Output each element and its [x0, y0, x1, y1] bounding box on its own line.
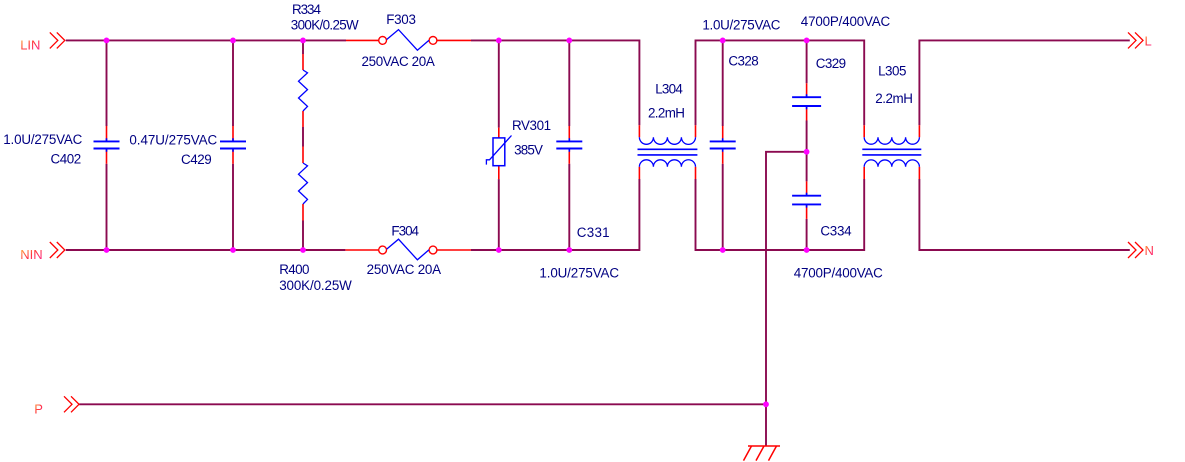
pin C429 leads	[232, 126, 234, 164]
wire top rail between fuse and L304	[471, 40, 639, 125]
pin C402 leads	[106, 126, 108, 164]
node P rail earth junction	[763, 401, 769, 407]
svg-text:L: L	[1145, 34, 1152, 49]
svg-text:1.0U/275VAC: 1.0U/275VAC	[539, 266, 619, 281]
node RV301 top	[496, 38, 502, 44]
pin L305 leads	[864, 125, 919, 179]
svg-text:N: N	[1145, 243, 1154, 258]
port L	[1128, 32, 1152, 48]
svg-text:L304: L304	[655, 82, 683, 97]
node C429 bottom	[230, 247, 236, 253]
svg-text:1.0U/275VAC: 1.0U/275VAC	[702, 18, 780, 33]
capacitor C402	[3, 132, 119, 167]
wire C429 branch	[232, 40, 234, 250]
node RV301 bottom	[496, 247, 502, 253]
svg-text:C329: C329	[816, 56, 846, 71]
wire RV301 branch	[498, 40, 500, 250]
pin F303 leads	[346, 39, 471, 41]
pin F304 leads	[345, 249, 471, 251]
wire bottom rail L305 right to N port	[919, 179, 1129, 250]
svg-text:300K/0.25W: 300K/0.25W	[279, 278, 352, 293]
svg-text:C429: C429	[181, 152, 212, 167]
varistor RV301	[486, 118, 551, 166]
svg-text:P: P	[34, 402, 43, 417]
resistor R334	[291, 2, 359, 111]
svg-text:C331: C331	[577, 225, 610, 240]
capacitor C331	[539, 138, 619, 280]
svg-text:2.2mH: 2.2mH	[648, 106, 685, 121]
svg-text:385V: 385V	[514, 143, 543, 158]
svg-text:2.2mH: 2.2mH	[875, 91, 913, 106]
svg-text:R334: R334	[292, 2, 321, 17]
wire bottom rail between fuse and L304	[471, 179, 639, 250]
pin L304 leads	[639, 125, 695, 179]
inductor L305 common-mode choke	[862, 64, 921, 167]
red component pins	[107, 40, 920, 250]
capacitor C329	[792, 14, 890, 109]
node R400 bottom	[300, 247, 306, 253]
fuse F303	[362, 12, 437, 69]
pin R334 leads	[302, 54, 304, 127]
wire top rail L305 right to L port	[919, 40, 1129, 125]
node C334 bottom	[804, 247, 810, 253]
inductor L304 common-mode choke	[638, 82, 698, 167]
svg-text:300K/0.25W: 300K/0.25W	[291, 17, 359, 32]
resistor R400	[279, 163, 352, 293]
wire top rail L304 right to L305 left	[696, 40, 865, 125]
svg-text:NIN: NIN	[20, 247, 42, 262]
svg-text:LIN: LIN	[20, 38, 40, 53]
ground earth symbol	[744, 446, 781, 461]
svg-text:250VAC 20A: 250VAC 20A	[362, 54, 435, 69]
pin R400 leads	[302, 147, 304, 221]
wire C402 branch	[106, 40, 108, 250]
svg-text:4700P/400VAC: 4700P/400VAC	[794, 266, 883, 281]
svg-text:C334: C334	[820, 224, 852, 239]
node C328 bottom	[720, 247, 726, 253]
node R334 top	[300, 38, 306, 44]
port LIN	[20, 32, 65, 52]
node LIN-C402 top	[104, 38, 110, 44]
wire C328 branch	[722, 40, 724, 250]
wire C331 branch	[568, 40, 570, 250]
pin C328 leads	[722, 126, 724, 164]
svg-text:0.47U/275VAC: 0.47U/275VAC	[129, 132, 217, 147]
node C328 top	[720, 38, 726, 44]
wire bottom rail left segment	[66, 249, 346, 251]
node C331 bottom	[566, 247, 572, 253]
wire P rail	[79, 403, 766, 405]
node C329-C334 midpoint	[804, 149, 810, 155]
node C402 bottom	[104, 247, 110, 253]
capacitor C328	[702, 18, 780, 152]
port N	[1128, 242, 1154, 258]
wire resistor branch	[302, 40, 304, 250]
wire earth stub from C329-C334 midpoint	[766, 152, 807, 446]
fuse F304	[367, 224, 442, 278]
pin C334 leads	[806, 181, 808, 219]
node C329 top	[804, 38, 810, 44]
wire bottom rail L304 right to L305 left	[696, 179, 865, 250]
svg-text:4700P/400VAC: 4700P/400VAC	[801, 14, 891, 29]
svg-text:L305: L305	[878, 64, 906, 79]
svg-text:1.0U/275VAC: 1.0U/275VAC	[3, 132, 82, 147]
capacitor C334	[792, 193, 883, 281]
pin C329 leads	[806, 83, 808, 120]
svg-text:R400: R400	[279, 262, 309, 277]
svg-text:F303: F303	[386, 12, 416, 27]
svg-text:F304: F304	[391, 224, 419, 239]
wire C329 C334 branch	[806, 40, 808, 250]
port NIN	[20, 242, 65, 262]
capacitor C429	[129, 132, 246, 167]
wire top rail left segment	[66, 40, 1130, 445]
pin RV301 leads	[498, 128, 500, 180]
node C331 top	[566, 38, 572, 44]
node C429 top	[230, 38, 236, 44]
svg-text:C402: C402	[51, 152, 82, 167]
port P	[34, 396, 79, 416]
svg-text:RV301: RV301	[512, 118, 551, 133]
svg-text:250VAC 20A: 250VAC 20A	[367, 262, 442, 277]
svg-text:C328: C328	[728, 53, 758, 68]
pin C331 leads	[568, 126, 570, 164]
